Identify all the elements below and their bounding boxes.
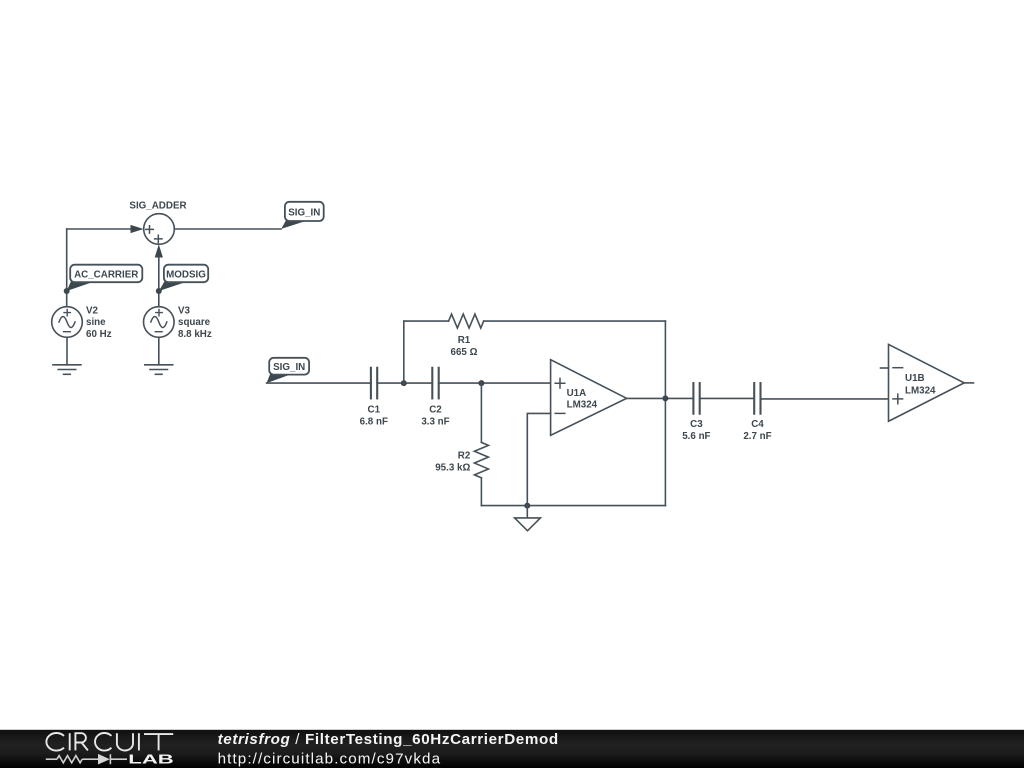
wire C4 to op-amp U1B non-inverting input xyxy=(761,398,889,400)
ground (earth) for V3 xyxy=(145,365,173,375)
logo CIRCUIT xyxy=(46,733,173,751)
svg-text:LM324: LM324 xyxy=(905,386,936,397)
arrowhead into adder left input xyxy=(131,225,144,233)
wire junction A up to R1 xyxy=(403,321,405,383)
capacitor C3 xyxy=(693,383,699,414)
voltage source V2 xyxy=(52,307,83,338)
wire right rail down to output node xyxy=(664,321,666,398)
wire C2 to op-amp U1A non-inverting input xyxy=(439,382,551,384)
wire V3 to ground xyxy=(158,337,160,365)
wire U1A output to C3 xyxy=(627,397,694,399)
svg-text:U1B: U1B xyxy=(905,373,925,384)
node junction output U1A xyxy=(662,395,668,401)
wire V2 to ground xyxy=(66,337,68,365)
voltage source V3 xyxy=(144,307,175,338)
svg-text:LAB: LAB xyxy=(128,751,174,766)
svg-text:MODSIG: MODSIG xyxy=(166,269,206,280)
svg-text:SIG_ADDER: SIG_ADDER xyxy=(129,201,186,212)
node junction MODSIG xyxy=(156,288,162,294)
wire SIG_IN to C1 xyxy=(267,382,371,384)
svg-text:U1A: U1A xyxy=(567,388,587,399)
wire vertical AC_CARRIER down to V2 xyxy=(66,229,68,307)
svg-text:AC_CARRIER: AC_CARRIER xyxy=(74,269,138,280)
footer bar xyxy=(0,730,1024,768)
wire R1 rail left xyxy=(404,320,449,322)
wire R2 down to ground rail xyxy=(480,478,482,506)
flag AC_CARRIER xyxy=(67,265,143,291)
flag SIG_IN (adder output) xyxy=(281,202,323,229)
svg-text:http://circuitlab.com/c97vkda: http://circuitlab.com/c97vkda xyxy=(218,751,442,768)
node junction A (R1 tap) xyxy=(401,380,407,386)
wire junction B down to R2 xyxy=(480,383,482,442)
wire adder output to SIG_IN flag xyxy=(174,228,281,230)
flag SIG_IN (filter input) xyxy=(267,358,310,383)
wire U1B output stub xyxy=(964,382,973,384)
wire right rail down from output node xyxy=(664,398,666,505)
node junction B (R2 tap) xyxy=(478,380,484,386)
op-amp U1B xyxy=(881,344,965,421)
resistor R2 xyxy=(474,442,488,477)
svg-text:SIG_IN: SIG_IN xyxy=(288,207,320,218)
node junction at ground stub xyxy=(524,503,530,509)
wire MODSIG branch up into adder xyxy=(158,256,160,307)
wire R1 rail right xyxy=(484,320,666,322)
summer U2 (signal adder) xyxy=(144,214,175,245)
wire C1 to C2 xyxy=(377,382,432,384)
wire U1A inverting input to ground rail xyxy=(527,413,550,505)
logo resistor-diode squiggle xyxy=(46,754,127,765)
arrowhead into adder bottom input xyxy=(155,244,163,257)
ground (earth) for V2 xyxy=(53,365,81,375)
capacitor C4 xyxy=(754,383,760,414)
resistor R1 xyxy=(449,314,484,328)
op-amp U1A xyxy=(551,360,627,436)
ground (signal) below U1A xyxy=(515,506,541,531)
svg-text:tetrisfrog / FilterTesting_60H: tetrisfrog / FilterTesting_60HzCarrierDe… xyxy=(218,731,559,748)
wire ground rail (bottom) xyxy=(481,505,665,507)
svg-text:LM324: LM324 xyxy=(567,400,598,411)
capacitor C2 xyxy=(432,368,438,399)
wire C3 to C4 xyxy=(700,397,755,399)
svg-text:SIG_IN: SIG_IN xyxy=(273,362,305,373)
wire from AC_CARRIER branch into adder left xyxy=(67,228,131,230)
capacitor C1 xyxy=(371,368,377,399)
flag MODSIG xyxy=(159,265,208,291)
node junction AC_CARRIER xyxy=(64,288,70,294)
